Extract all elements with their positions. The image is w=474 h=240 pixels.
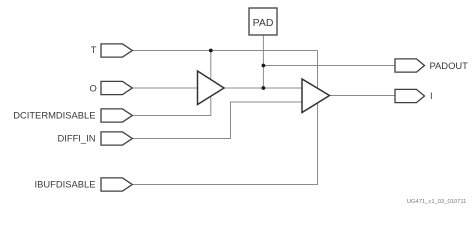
svg-text:UG471_c1_03_010711: UG471_c1_03_010711: [407, 199, 467, 205]
port DCITERMDISABLE pentagon: [101, 109, 132, 122]
wire PADOUT: [263, 65, 395, 67]
port PADOUT pentagon: [395, 59, 425, 72]
port I pentagon: [395, 89, 425, 102]
svg-text:DCITERMDISABLE: DCITERMDISABLE: [13, 110, 95, 121]
port IBUFDISABLE pentagon: [101, 178, 132, 191]
port O pentagon: [101, 81, 132, 94]
PAD box: [249, 8, 277, 35]
svg-text:IBUFDISABLE: IBUFDISABLE: [35, 179, 96, 190]
junction dot PADOUT: [262, 64, 266, 68]
svg-text:I: I: [430, 90, 433, 101]
svg-text:O: O: [90, 82, 97, 93]
port T pentagon: [101, 44, 132, 57]
wire output buffer to input buffer (pad net): [224, 87, 302, 89]
wire IBUFDISABLE: [131, 102, 318, 185]
svg-text:PADOUT: PADOUT: [430, 60, 469, 71]
buffer output triangle: [198, 71, 225, 105]
wire PAD vertical: [262, 35, 264, 88]
junction dot pad net: [262, 86, 266, 90]
wire I output: [330, 95, 396, 97]
svg-text:PAD: PAD: [253, 17, 274, 29]
svg-text:DIFFI_IN: DIFFI_IN: [57, 133, 95, 144]
wire T stub to output buffer top: [210, 51, 212, 83]
wire O to output buffer: [131, 87, 198, 89]
port DIFFI_IN pentagon: [101, 132, 132, 145]
wire DIFFI_IN: [131, 102, 302, 139]
wire DCITERMDISABLE: [131, 94, 211, 116]
junction dot T: [209, 49, 213, 53]
wire T net horizontal: [131, 50, 318, 52]
buffer input triangle: [302, 79, 330, 113]
wire T net vertical to input buffer top: [317, 51, 319, 90]
svg-text:T: T: [91, 44, 97, 55]
